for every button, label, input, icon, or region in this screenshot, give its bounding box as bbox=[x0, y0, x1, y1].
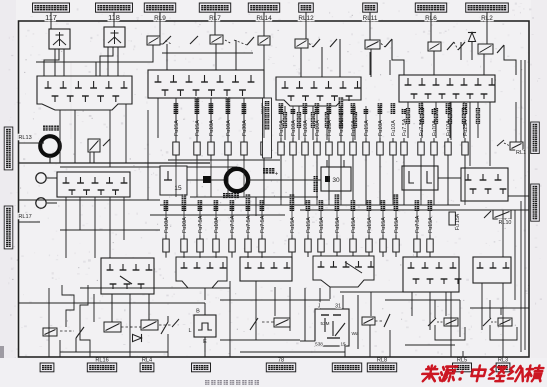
fuse Fu30A col244 bbox=[243, 138, 245, 142]
J31 side rail bbox=[357, 295, 359, 349]
wire sq pin bbox=[187, 179, 203, 181]
relay RL12 second contact bbox=[330, 39, 337, 47]
svg-text:Fu7.5A: Fu7.5A bbox=[230, 215, 236, 233]
wire stem from RL7 bbox=[214, 13, 216, 22]
svg-text:Fu15A: Fu15A bbox=[367, 217, 373, 233]
wires fuse row2 down to lower connectors bbox=[165, 257, 167, 258]
relay RL11 coil bbox=[365, 40, 380, 49]
lamp detector U118 bulb box bbox=[104, 27, 125, 47]
connector block X4 upper-far-right bbox=[399, 75, 495, 102]
relay RL8 coil bbox=[362, 317, 375, 325]
wire stem from RL14 bbox=[263, 13, 265, 22]
relay RL12 contact bbox=[313, 39, 320, 47]
wire stem from 117 bbox=[50, 13, 52, 22]
fuse Fu10A col380 bbox=[379, 138, 381, 142]
svg-text:Fu15A: Fu15A bbox=[319, 217, 325, 233]
svg-text:Fu7.5A: Fu7.5A bbox=[198, 215, 204, 233]
connector block X13 bbox=[473, 257, 511, 283]
flasher unit box bbox=[194, 315, 216, 337]
horizontal bus y167 bbox=[60, 166, 237, 168]
bottom label flasher unit bbox=[192, 363, 211, 372]
fuse Fu15A col341 bbox=[340, 138, 342, 142]
fuse Fu15A col366 bbox=[365, 138, 367, 142]
svg-text:Fu15A: Fu15A bbox=[428, 217, 434, 233]
svg-text:Fu15A: Fu15A bbox=[381, 217, 387, 233]
svg-text:Fu10A: Fu10A bbox=[164, 217, 170, 233]
svg-text:Fu7.5A: Fu7.5A bbox=[415, 215, 421, 233]
fuse row 1 bottom bus bbox=[168, 159, 280, 161]
fuse Fu10A col216b bbox=[215, 235, 217, 239]
vertical wires above J31 bbox=[319, 288, 321, 309]
wire bulb1 bbox=[50, 13, 52, 29]
battery minus vertical label bbox=[314, 176, 318, 181]
svg-text:Fu7.5A: Fu7.5A bbox=[246, 215, 252, 233]
wires from X1 down bbox=[59, 110, 61, 163]
top label start protection relay RL2 bbox=[466, 3, 509, 12]
right label drive recorder power bbox=[531, 184, 540, 221]
wire RL13 to border bbox=[19, 142, 40, 144]
spare relay coil left bbox=[141, 320, 158, 330]
relay contact mid bbox=[172, 319, 179, 327]
relay RL14 contact bbox=[247, 37, 254, 45]
relay RL2 coil bbox=[478, 44, 493, 54]
left label front door control relay RL17 bbox=[4, 206, 13, 249]
svg-text:Fu10A: Fu10A bbox=[214, 217, 220, 233]
contact-coil pair left of J31 bbox=[250, 318, 258, 330]
svg-text:31: 31 bbox=[335, 304, 341, 310]
connector block X3 upper-right bbox=[276, 77, 361, 106]
wires through fuse row1 labels bbox=[263, 106, 265, 138]
verticals right half top to mid bbox=[369, 52, 371, 75]
top label double-pole relay RL6 bbox=[415, 3, 446, 12]
wire stem from RL2 bbox=[486, 13, 488, 22]
svg-text:L: L bbox=[188, 328, 191, 334]
svg-text:+: + bbox=[275, 172, 279, 178]
svg-text:J: J bbox=[318, 304, 321, 310]
svg-text:Fu10A: Fu10A bbox=[209, 120, 215, 136]
fuse Fu10A col211 bbox=[210, 138, 212, 142]
bottom label interlock controller bbox=[332, 363, 361, 372]
svg-text:Fu15A: Fu15A bbox=[174, 120, 180, 136]
wire stem from RL11 bbox=[369, 13, 371, 22]
svg-text:Fu25A: Fu25A bbox=[463, 120, 469, 136]
relay RL9 contact bbox=[163, 36, 171, 44]
contact switch bottom bbox=[161, 322, 168, 334]
RL3 contact bbox=[483, 318, 491, 326]
bus y215 bbox=[150, 214, 285, 216]
svg-text:Fu15A: Fu15A bbox=[290, 217, 296, 233]
svg-text:Fu7.5A: Fu7.5A bbox=[260, 215, 266, 233]
wire bulb2 bbox=[113, 13, 115, 27]
svg-text:Fu7.5A: Fu7.5A bbox=[419, 118, 425, 136]
mid horizontal y288 bbox=[80, 287, 230, 289]
fuse Fu25A col465 bbox=[464, 138, 466, 142]
bus y205 bbox=[160, 204, 460, 206]
relay RL7 contact bbox=[190, 36, 198, 44]
wire loop RL3 unit bbox=[489, 300, 491, 318]
fuse Fu15A col292b bbox=[291, 235, 293, 239]
svg-text:Fu10A: Fu10A bbox=[315, 120, 321, 136]
aux circle terminal B bbox=[36, 198, 46, 208]
svg-text:Fu 15A: Fu 15A bbox=[455, 213, 461, 230]
J31 internal contacts bbox=[321, 314, 329, 316]
spare relay coil far-left bbox=[43, 328, 57, 336]
top label rear fog lamp detector 117 bbox=[33, 3, 70, 12]
top label spare relay RL12 bbox=[299, 3, 314, 12]
connector block X11 bbox=[313, 256, 374, 287]
connector block X2 upper-middle bbox=[148, 70, 264, 98]
fuse Fu15A col430b bbox=[429, 235, 431, 239]
connector block X8 lower-left bbox=[101, 258, 154, 294]
fuse Fu15A col264 bbox=[263, 138, 265, 142]
fuse Fu10A col293 bbox=[292, 138, 294, 142]
wire loop RL5 unit bbox=[434, 300, 436, 318]
fuse Fu15A col281 bbox=[280, 138, 282, 142]
fuse Fu10A col184b bbox=[183, 235, 185, 239]
wire recorder label to border bbox=[508, 195, 529, 197]
horizontal bus y230 left bbox=[60, 229, 160, 231]
relay RL3 coil bbox=[498, 318, 512, 326]
svg-text:RL10: RL10 bbox=[499, 220, 512, 226]
svg-text:Fu15A: Fu15A bbox=[351, 120, 357, 136]
misc diagonal dashes bbox=[130, 326, 141, 328]
fuse Fu7.5A col417b bbox=[416, 235, 418, 239]
glow plug monitor tall label box bbox=[263, 98, 272, 158]
svg-text:Fu7.5A: Fu7.5A bbox=[402, 118, 408, 136]
horizontal runs lower area bbox=[19, 302, 205, 304]
relay RL9 coil bbox=[147, 36, 160, 45]
svg-text:B: B bbox=[196, 309, 200, 315]
wire ring to bus bbox=[49, 156, 51, 163]
fuse Fu10A col393 bbox=[392, 138, 394, 142]
svg-text:Fu10A: Fu10A bbox=[182, 217, 188, 233]
wire stem from RL12 bbox=[305, 13, 307, 22]
connector block X10 bbox=[240, 257, 292, 281]
fuse Fu15A col353 bbox=[352, 138, 354, 142]
svg-text:Fu15A: Fu15A bbox=[195, 120, 201, 136]
fuse Fu15A col308b bbox=[307, 235, 309, 239]
RL13 contact bbox=[103, 139, 110, 146]
fuse Fu7.5A col404 bbox=[403, 138, 405, 142]
wiper control box J31 bbox=[315, 309, 349, 346]
svg-text:Fu15A: Fu15A bbox=[364, 120, 370, 136]
diode D2 bbox=[133, 334, 142, 342]
fuse Fu15A col176 bbox=[175, 138, 177, 142]
wires X5 down to lower boxes bbox=[65, 197, 67, 258]
wires fuse row1 down to buses bbox=[175, 160, 177, 197]
svg-text:30: 30 bbox=[332, 177, 340, 184]
fuse Fu10A col434 bbox=[433, 138, 435, 142]
fuse Fu15A col321b bbox=[320, 235, 322, 239]
svg-text:Fu15A: Fu15A bbox=[339, 120, 345, 136]
top label spare relay RL11 bbox=[363, 3, 378, 12]
svg-text:Fu10A: Fu10A bbox=[391, 120, 397, 136]
fuse Fu7.5A col421 bbox=[420, 138, 422, 142]
svg-text:RL13: RL13 bbox=[18, 135, 31, 141]
long verticals to bottom border bbox=[59, 340, 61, 357]
svg-text:Fu10A: Fu10A bbox=[432, 120, 438, 136]
wire stem from 118 bbox=[113, 13, 115, 22]
svg-text:Fu30A: Fu30A bbox=[242, 120, 248, 136]
connector block X12 bbox=[403, 257, 459, 292]
source watermark red text lai-yuan zhong-jing-zong-heng bbox=[421, 366, 544, 382]
bus y210 partial bbox=[300, 209, 529, 211]
wires aux circles bbox=[47, 177, 57, 179]
relay RL5 coil bbox=[444, 318, 458, 326]
relay RL14 coil bbox=[258, 36, 270, 45]
aux circle terminal A bbox=[36, 173, 46, 183]
svg-text:Fu10A: Fu10A bbox=[303, 120, 309, 136]
main negative terminal ring bbox=[40, 136, 60, 156]
relay RL10 coil bbox=[493, 210, 511, 219]
relay RL11 contact bbox=[385, 39, 392, 47]
svg-text:Fu15A: Fu15A bbox=[351, 217, 357, 233]
RL1 dashed contact bbox=[497, 140, 504, 146]
wire stem from RL9 bbox=[159, 13, 161, 22]
svg-text:538: 538 bbox=[315, 342, 323, 347]
main negative label bbox=[43, 126, 48, 131]
wires row1 to connector boxes bbox=[159, 21, 161, 36]
svg-text:Fu10A: Fu10A bbox=[378, 120, 384, 136]
left bottom zigzag wires bbox=[48, 288, 50, 357]
relay RL7 coil bbox=[210, 35, 223, 44]
dashed link spare relay bbox=[60, 330, 74, 332]
relay RL1 coil bbox=[510, 142, 523, 150]
relay RL2 contact bbox=[497, 45, 504, 53]
wires fuse row1 to bus bbox=[263, 160, 265, 205]
svg-text:Fu10A: Fu10A bbox=[226, 120, 232, 136]
caption text under diagram bbox=[205, 380, 209, 385]
RL10 contact bbox=[484, 211, 491, 218]
top label fog lamp relay RL7 bbox=[199, 3, 230, 12]
bus segment y53 top bbox=[162, 52, 253, 54]
svg-text:Fu15A: Fu15A bbox=[306, 217, 312, 233]
flasher wires bbox=[204, 303, 206, 315]
bus lines center bbox=[147, 110, 149, 200]
svg-text:Fu15A: Fu15A bbox=[327, 120, 333, 136]
lamp detector U117 bulb box bbox=[49, 29, 70, 49]
wires coils bottom up bbox=[111, 294, 113, 322]
top label brake relay RL9 bbox=[144, 3, 175, 12]
svg-text:Fu15A: Fu15A bbox=[394, 217, 400, 233]
diode D1 bbox=[468, 33, 476, 42]
relay RL6 contacts bbox=[447, 42, 454, 50]
fuse Fu15A col369b bbox=[368, 235, 370, 239]
connector block X1 upper-left bbox=[37, 76, 132, 110]
fuse Fu15A col383b bbox=[382, 235, 384, 239]
main positive terminal ring bbox=[226, 169, 248, 191]
fuse Fu15A col353b bbox=[352, 235, 354, 239]
top label tail lamp relay RL14 bbox=[248, 3, 279, 12]
black square pin bbox=[203, 176, 211, 183]
bottom label spare bbox=[40, 363, 54, 372]
battery box 30 bbox=[321, 167, 351, 191]
right label flasher relay bbox=[531, 122, 540, 154]
fuse Fu10A col305 bbox=[304, 138, 306, 142]
relay block X6 with hook contacts bbox=[402, 166, 438, 190]
relay coil left of J31 bbox=[274, 318, 290, 327]
svg-text:15: 15 bbox=[174, 185, 182, 192]
horizontal bus y62 left bbox=[36, 61, 96, 63]
svg-text:RL1: RL1 bbox=[516, 150, 526, 156]
left label rear door control relay RL13 bbox=[4, 127, 13, 170]
fuse Fu15A col396b bbox=[395, 235, 397, 239]
RL8 contact bbox=[384, 314, 390, 327]
horizontal bus y163 bbox=[19, 162, 210, 164]
relay RL12 coil bbox=[295, 39, 308, 48]
fuse Fu7.5A col262b bbox=[261, 235, 263, 239]
relay RL13 coil mid-left bbox=[88, 139, 100, 152]
fuse Fu15A col337b bbox=[336, 235, 338, 239]
fuse Fu15A col197 bbox=[196, 138, 198, 142]
main positive label bbox=[223, 193, 228, 198]
svg-text:RL17: RL17 bbox=[18, 214, 31, 220]
svg-text:Fu15A: Fu15A bbox=[279, 120, 285, 136]
wire stem from RL6 bbox=[430, 13, 432, 22]
connector block X7 right bbox=[461, 168, 508, 201]
spare relay contact bbox=[76, 327, 84, 338]
wire channel labels under X3 bbox=[284, 106, 286, 140]
fuse Fu10A col448 bbox=[447, 138, 449, 142]
fuse Fu7.5A col232b bbox=[231, 235, 233, 239]
relay RL16 coil bbox=[104, 322, 121, 332]
left bottom contact bbox=[75, 338, 77, 352]
svg-text:Fu15A: Fu15A bbox=[335, 217, 341, 233]
right rail near border bbox=[524, 60, 526, 350]
fuse Fu15A col329 bbox=[328, 138, 330, 142]
wire RL17 stub bbox=[19, 221, 40, 223]
ignition switch block 15 bbox=[160, 166, 187, 195]
fuse Fu10A col228 bbox=[227, 138, 229, 142]
wire coil down bbox=[93, 152, 95, 163]
RL5 contact bbox=[428, 318, 436, 326]
connector block X9 bbox=[176, 257, 227, 288]
fuse Fu10A col317 bbox=[316, 138, 318, 142]
wires fuse row2 up through labels bbox=[165, 205, 167, 235]
fuse Fu15A far right top bbox=[370, 52, 376, 65]
top label brake lamp detector 118 bbox=[96, 3, 133, 12]
connector block X5 left bbox=[57, 172, 130, 197]
fuse Fu15A horizontal right bbox=[449, 212, 455, 225]
fuse Fu10A col166b bbox=[165, 235, 167, 239]
fuse Fu7.5A col248b bbox=[247, 235, 249, 239]
wires upper X2 to fuse row1 bbox=[157, 98, 159, 138]
wire channel labels under X4 bbox=[407, 102, 409, 138]
svg-text:Fu10A: Fu10A bbox=[291, 120, 297, 136]
fuse Fu7.5A col200b bbox=[199, 235, 201, 239]
relay RL6 coil bbox=[428, 42, 441, 51]
